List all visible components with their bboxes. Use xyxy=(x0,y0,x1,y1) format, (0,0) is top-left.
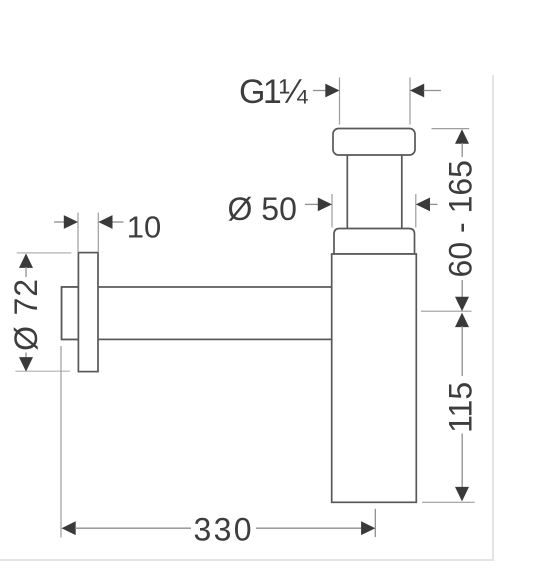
arrow pointing left at right extension xyxy=(410,84,424,98)
extension line at body centerline xyxy=(374,509,376,537)
leader line right xyxy=(424,90,442,92)
leader line left xyxy=(313,90,327,92)
leader line left xyxy=(305,203,319,205)
dimension line left segment xyxy=(75,527,191,529)
svg-text:115: 115 xyxy=(443,382,479,433)
extension line at flange top xyxy=(17,252,72,254)
dimension line lower segment xyxy=(25,353,27,359)
dimension line lower segment xyxy=(461,280,463,298)
arrow pointing down at body bottom xyxy=(455,487,469,502)
dimension line upper segment xyxy=(25,267,27,277)
dimension line lower segment xyxy=(461,434,463,488)
extension line right of flange xyxy=(97,213,99,253)
extension line at body bottom level xyxy=(422,501,475,503)
extension line right of cap xyxy=(415,194,417,228)
svg-text:330: 330 xyxy=(194,511,252,547)
top nut cap xyxy=(333,129,415,156)
arrow pointing down at flange bottom xyxy=(19,357,33,372)
extension line at wall face xyxy=(60,346,62,538)
arrow pointing right at left face xyxy=(64,215,78,229)
extension line at cap top level xyxy=(432,128,470,130)
svg-text:G1¼: G1¼ xyxy=(239,73,308,111)
svg-text:10: 10 xyxy=(127,209,161,244)
arrow pointing up below mid line xyxy=(455,313,469,328)
card border (right + bottom, light gray) xyxy=(0,75,493,560)
arrow pointing left at wall face xyxy=(62,521,76,535)
leader line right xyxy=(430,203,438,205)
extension line at mid level xyxy=(421,310,472,312)
wall flange plate xyxy=(78,253,98,372)
extension line left of flange xyxy=(77,213,79,253)
svg-text:60 - 165: 60 - 165 xyxy=(443,160,479,277)
svg-text:Ø 50: Ø 50 xyxy=(228,191,297,227)
leader line left xyxy=(54,221,65,223)
lower flange nut xyxy=(334,229,415,255)
extension line right of thread xyxy=(409,78,411,125)
arrow pointing right at left extension xyxy=(325,84,339,98)
arrow pointing down at mid line xyxy=(455,297,469,312)
svg-text:Ø 72: Ø 72 xyxy=(8,279,44,351)
arrow pointing right at left extension xyxy=(318,198,332,212)
dimension line right segment xyxy=(256,527,362,529)
dimension line upper segment xyxy=(461,143,463,157)
arrow pointing left at right face xyxy=(98,215,112,229)
escutcheon sleeve xyxy=(62,287,79,339)
extension line left of thread xyxy=(339,78,341,125)
extension line at flange bottom xyxy=(15,370,70,372)
arrow pointing up at top xyxy=(455,129,469,144)
extension line left of cap xyxy=(331,194,333,228)
siphon body xyxy=(332,254,417,502)
arrow pointing up at flange top xyxy=(19,253,33,268)
arrow pointing left at right extension xyxy=(416,198,430,212)
dimension line upper segment xyxy=(461,326,463,376)
leader line right xyxy=(113,221,124,223)
arrow pointing right at body centerline xyxy=(361,521,375,535)
vertical inlet pipe xyxy=(347,145,402,238)
horizontal outlet pipe xyxy=(62,287,332,339)
